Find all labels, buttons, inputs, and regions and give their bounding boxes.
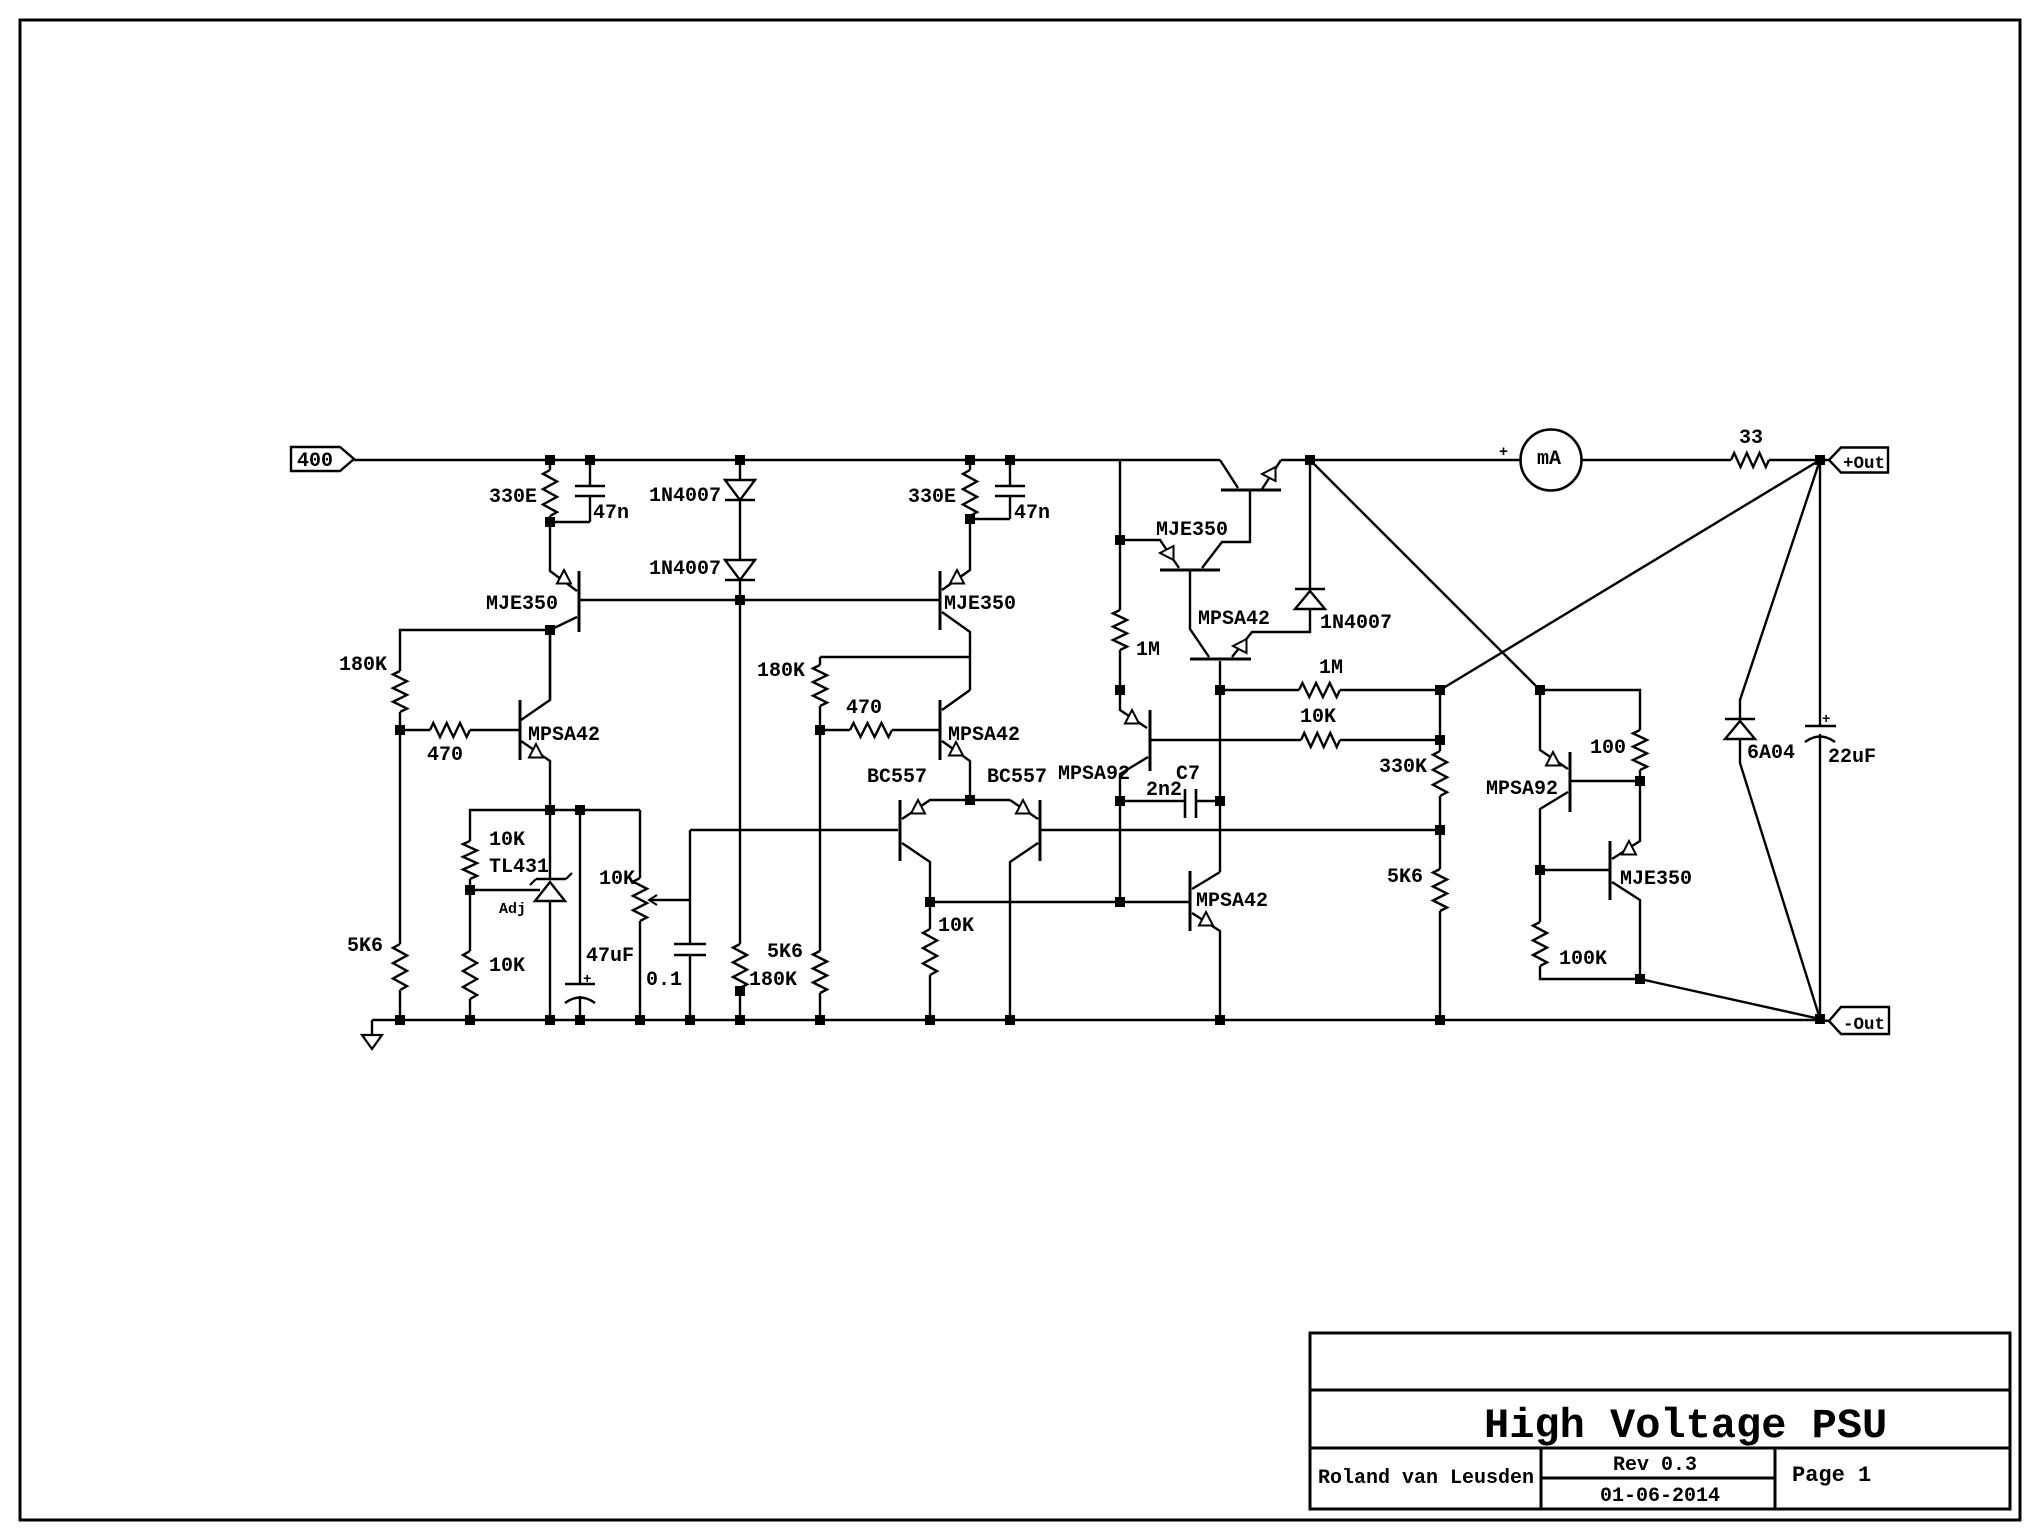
svg-text:TL431: TL431 xyxy=(489,856,549,879)
wire diode column down to 180K xyxy=(739,600,741,944)
junction subnet/MPSA42 emitter xyxy=(546,806,555,815)
junction rail/diode column xyxy=(736,456,745,465)
junction 330K node top xyxy=(1436,686,1445,695)
TL431 shunt regulator xyxy=(549,810,551,879)
resistor 1M (vertical) xyxy=(1119,540,1121,610)
resistor 5K6 (far left) xyxy=(399,730,401,944)
svg-text:10K: 10K xyxy=(489,829,525,852)
svg-text:MJE350: MJE350 xyxy=(486,593,558,616)
wire BC557 base line left xyxy=(690,829,898,831)
svg-text:1M: 1M xyxy=(1319,657,1343,680)
junction 470/5K6/180K middle node xyxy=(816,726,825,735)
junction MPSA92 collector / MJE350 base xyxy=(1536,866,1545,875)
svg-text:10K: 10K xyxy=(938,915,974,938)
title block title row line xyxy=(1310,1389,2010,1392)
junction BC557 emitters / MPSA42 emitter xyxy=(966,796,975,805)
resistor 10K (TL431 upper) xyxy=(463,841,477,879)
wire meter to 33 xyxy=(1582,459,1731,461)
transistor MJE350 Q10 (series pass, on rail) xyxy=(1221,489,1281,492)
junction ground rail x=1010 xyxy=(1006,1016,1015,1025)
svg-text:6A04: 6A04 xyxy=(1747,742,1795,765)
svg-text:MPSA42: MPSA42 xyxy=(948,724,1020,747)
wire +Out node to 330K node xyxy=(1440,460,1820,690)
svg-text:1M: 1M xyxy=(1136,639,1160,662)
capacitor 0.1 xyxy=(689,830,691,944)
svg-text:MJE350: MJE350 xyxy=(944,593,1016,616)
svg-text:MPSA42: MPSA42 xyxy=(1196,890,1268,913)
svg-text:MPSA42: MPSA42 xyxy=(528,724,600,747)
junction rail/330E left xyxy=(546,456,555,465)
junction Adj node xyxy=(466,886,475,895)
resistor 470 (left base) xyxy=(400,729,430,731)
svg-text:BC557: BC557 xyxy=(987,766,1047,789)
diode 1N4007 D2 xyxy=(725,560,755,580)
junction rail/47n left xyxy=(586,456,595,465)
junction driver emitter node xyxy=(1536,686,1545,695)
wire Adj to TL431 xyxy=(470,889,540,891)
svg-text:BC557: BC557 xyxy=(867,766,927,789)
resistor 1M (horizontal) xyxy=(1220,689,1299,691)
svg-text:180K: 180K xyxy=(749,969,797,992)
svg-text:33: 33 xyxy=(1739,427,1763,450)
resistor 330E (left snubber) xyxy=(549,460,551,470)
wire tail node to MPSA42 base xyxy=(930,901,1190,903)
junction 330E/47n bottom right xyxy=(966,515,975,524)
transistor MPSA42 Q11 (cascode, rotated) xyxy=(1190,658,1251,661)
capacitor C7 2n2 xyxy=(1120,800,1184,802)
svg-text:470: 470 xyxy=(846,697,882,720)
junction ground rail x=930 xyxy=(926,1016,935,1025)
capacitor 47n (left snubber) xyxy=(589,460,591,486)
resistor 33 xyxy=(1731,453,1769,467)
svg-text:+: + xyxy=(1499,444,1508,461)
junction +Out node xyxy=(1816,456,1825,465)
wire top supply rail from 400 flag to pass transistor xyxy=(354,459,1220,461)
wire ground rail xyxy=(372,1019,1820,1021)
node 400 input flag xyxy=(291,447,354,471)
junction -Out node xyxy=(1816,1015,1825,1024)
svg-text:1N4007: 1N4007 xyxy=(649,558,721,581)
junction ground rail x=820 xyxy=(816,1016,825,1025)
svg-text:MPSA92: MPSA92 xyxy=(1058,763,1130,786)
junction C7 left xyxy=(1116,797,1125,806)
junction ground rail x=740 xyxy=(736,1016,745,1025)
capacitor 47uF electrolytic xyxy=(579,810,581,984)
junction ground rail x=690 xyxy=(686,1016,695,1025)
svg-text:100K: 100K xyxy=(1559,948,1607,971)
junction ground rail x=640 xyxy=(636,1016,645,1025)
wire driver node to 100 resistor xyxy=(1540,690,1640,730)
junction ground rail x=470 xyxy=(466,1016,475,1025)
svg-text:-Out: -Out xyxy=(1843,1015,1885,1035)
junction rail / D3 column xyxy=(1306,456,1315,465)
junction subnet/47uF xyxy=(576,806,585,815)
svg-text:+: + xyxy=(583,972,591,988)
junction BC557 left collector node xyxy=(926,898,935,907)
transistor MPSA92 Q7 (middle) xyxy=(1149,710,1152,771)
svg-text:22uF: 22uF xyxy=(1828,746,1876,769)
transistor BC557 Q6 (right of pair) xyxy=(1039,800,1042,861)
wire rail to meter xyxy=(1281,459,1520,461)
svg-text:Rev 0.3: Rev 0.3 xyxy=(1613,1454,1697,1477)
transistor MJE350 Q3 (middle) xyxy=(939,571,942,630)
svg-text:330E: 330E xyxy=(908,486,956,509)
resistor 180K (diode column) xyxy=(733,944,747,988)
svg-text:1N4007: 1N4007 xyxy=(1320,612,1392,635)
title block column dividers xyxy=(1540,1448,1543,1509)
svg-text:Roland van Leusden: Roland van Leusden xyxy=(1318,1467,1534,1490)
junction 100K / collector node xyxy=(1636,975,1645,984)
svg-text:mA: mA xyxy=(1537,448,1561,471)
svg-text:MJE350: MJE350 xyxy=(1156,519,1228,542)
svg-text:MPSA42: MPSA42 xyxy=(1198,608,1270,631)
diode 6A04 xyxy=(1740,460,1820,719)
transistor MPSA42 Q8 (bottom middle) xyxy=(1189,871,1192,931)
resistor 10K (horizontal) xyxy=(1301,733,1340,747)
svg-text:100: 100 xyxy=(1590,737,1626,760)
junction Q1 collector node xyxy=(546,626,555,635)
svg-text:MJE350: MJE350 xyxy=(1620,868,1692,891)
transistor MJE350 Q9 (pass driver, rotated) xyxy=(1160,569,1220,572)
svg-text:180K: 180K xyxy=(757,660,805,683)
pot wiper arrow xyxy=(650,899,690,901)
svg-text:0.1: 0.1 xyxy=(646,969,682,992)
svg-text:180K: 180K xyxy=(339,654,387,677)
junction 1M-h left xyxy=(1216,686,1225,695)
svg-text:5K6: 5K6 xyxy=(347,935,383,958)
svg-text:330K: 330K xyxy=(1379,756,1427,779)
svg-text:2n2: 2n2 xyxy=(1146,779,1182,802)
svg-text:5K6: 5K6 xyxy=(767,941,803,964)
junction diode column / base line xyxy=(736,596,745,605)
capacitor 22uF xyxy=(1819,460,1821,726)
resistor 330E (right snubber) xyxy=(969,460,971,470)
resistor 180K (far left) xyxy=(393,671,407,712)
svg-text:1N4007: 1N4007 xyxy=(649,485,721,508)
junction rail/330E right xyxy=(966,456,975,465)
svg-text:+: + xyxy=(1822,712,1830,728)
junction 330E/47n bottom left xyxy=(546,518,555,527)
resistor 180K (middle) xyxy=(819,657,821,665)
transistor MPSA42 Q2 (left) xyxy=(519,700,522,760)
svg-text:+Out: +Out xyxy=(1843,454,1885,474)
potentiometer 10K xyxy=(639,810,641,878)
junction C7 right xyxy=(1216,797,1225,806)
junction base line left xyxy=(1116,898,1125,907)
svg-text:Page 1: Page 1 xyxy=(1792,1463,1871,1488)
svg-text:High Voltage PSU: High Voltage PSU xyxy=(1484,1402,1887,1450)
resistor 5K6 (output divider) xyxy=(1439,830,1441,869)
wire Q1 collector node to 180K top-left xyxy=(400,630,550,671)
node -Out flag xyxy=(1820,1020,1829,1021)
resistor 10K (tail) xyxy=(929,902,931,929)
capacitor 47n (right snubber) xyxy=(1009,460,1011,486)
transistor MJE350 Q13 (output) xyxy=(1609,841,1612,900)
svg-text:Adj: Adj xyxy=(499,901,526,918)
svg-text:47n: 47n xyxy=(1014,502,1050,525)
svg-text:10K: 10K xyxy=(599,868,635,891)
wire C7 right column xyxy=(1219,801,1221,872)
transistor MPSA42 Q4 (middle) xyxy=(939,700,942,760)
svg-text:10K: 10K xyxy=(489,955,525,978)
wire 180K middle top to Q2 collector column xyxy=(820,656,970,658)
junction 10K right xyxy=(1436,736,1445,745)
resistor 330K xyxy=(1439,690,1441,751)
diode 1N4007 D3 xyxy=(1309,460,1311,589)
wire Q1 base line to Q2 base xyxy=(579,599,940,601)
svg-text:10K: 10K xyxy=(1300,706,1336,729)
wire TL431 subnet top rail xyxy=(470,810,640,841)
resistor 5K6 (middle) xyxy=(819,730,821,951)
transistor MJE350 Q1 (left) xyxy=(578,571,581,632)
svg-text:5K6: 5K6 xyxy=(1387,866,1423,889)
diode 1N4007 D1 xyxy=(739,460,741,480)
svg-text:400: 400 xyxy=(297,450,333,473)
wire Q1 collector down to MPSA42 collector xyxy=(549,630,551,700)
junction 1M bottom / MPSA92 emitter xyxy=(1116,686,1125,695)
title block outline xyxy=(1310,1333,2010,1509)
wire rail to 1M xyxy=(1119,460,1121,540)
svg-text:01-06-2014: 01-06-2014 xyxy=(1600,1485,1720,1508)
junction ground rail x=550 xyxy=(546,1016,555,1025)
node +Out flag xyxy=(1820,459,1829,461)
wire C7 left to MPSA42 base line xyxy=(1119,801,1121,902)
wire collector node to -Out xyxy=(1640,979,1820,1019)
junction ground rail x=1440 xyxy=(1436,1016,1445,1025)
svg-text:47n: 47n xyxy=(593,502,629,525)
junction ground rail x=400 xyxy=(396,1016,405,1025)
ammeter mA xyxy=(1521,430,1582,491)
junction ground rail x=580 xyxy=(576,1016,585,1025)
resistor 100K xyxy=(1539,870,1541,922)
svg-text:470: 470 xyxy=(427,744,463,767)
svg-text:47uF: 47uF xyxy=(586,945,634,968)
junction 1M top xyxy=(1116,536,1125,545)
junction stub on 180K lead xyxy=(736,987,745,996)
resistor 100 xyxy=(1633,730,1647,770)
transistor MPSA92 Q12 (output driver) xyxy=(1569,752,1572,812)
wire 45deg rail node to output driver xyxy=(1310,460,1540,690)
svg-text:330E: 330E xyxy=(489,486,537,509)
resistor 470 (middle base) xyxy=(820,729,850,731)
transistor BC557 Q5 (left of pair) xyxy=(899,800,902,861)
junction 180K/470/5K6 node xyxy=(396,726,405,735)
svg-text:MPSA92: MPSA92 xyxy=(1486,778,1558,801)
junction rail/47n right xyxy=(1006,456,1015,465)
junction 330K/5K6/base node xyxy=(1436,826,1445,835)
resistor 10K (TL431 lower) xyxy=(469,890,471,951)
ground symbol xyxy=(371,1020,373,1035)
wire MPSA92 base to 10K xyxy=(1150,739,1301,741)
junction ground rail x=1220 xyxy=(1216,1016,1225,1025)
junction 100/base/MJE350 emitter xyxy=(1636,777,1645,786)
wire BC557 right base to 330K node xyxy=(1040,829,1440,831)
